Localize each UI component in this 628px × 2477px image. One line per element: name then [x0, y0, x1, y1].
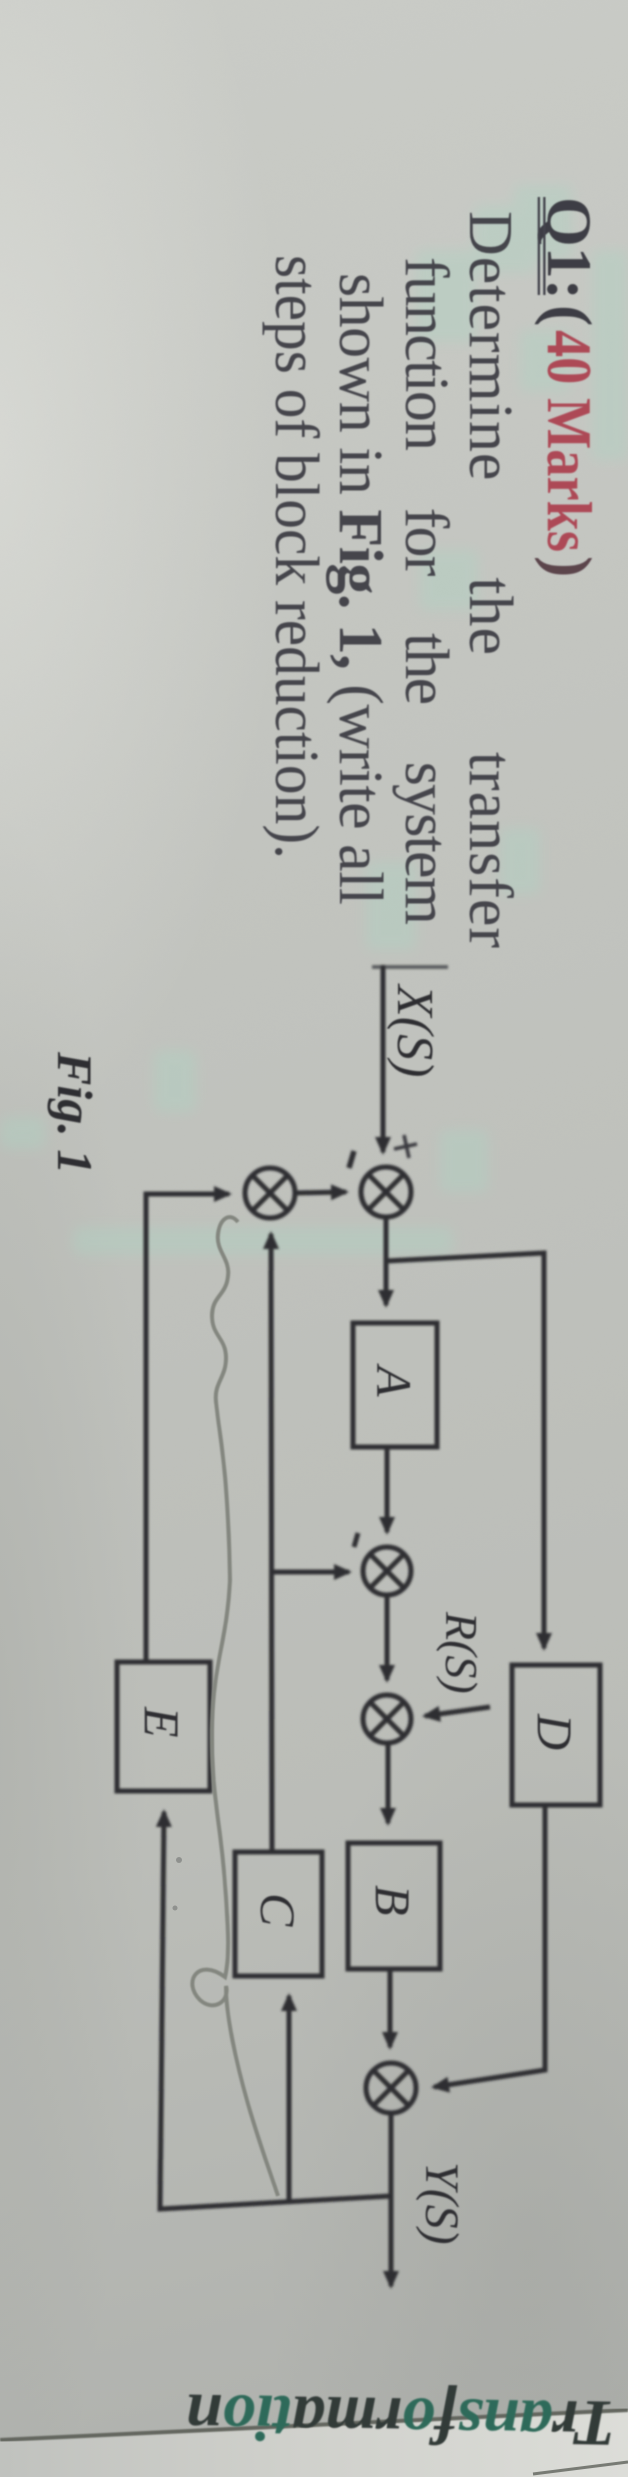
pencil dots — [176, 1857, 182, 1863]
wire B to S5 — [388, 1970, 393, 2047]
wire feedback branch to C — [287, 1996, 292, 2202]
plus sign at S1 — [394, 1135, 417, 1158]
second paper edge line — [533, 2462, 628, 2474]
svg-text:(: ( — [534, 305, 605, 326]
svg-text:C: C — [250, 1893, 306, 1927]
wire S2 to S1 — [295, 1192, 346, 1193]
heading Q1: (40 Marks) — [534, 197, 605, 577]
handwriting Transformation — [185, 2379, 617, 2460]
wire S3 to S4 — [385, 1593, 390, 1680]
svg-text:Transformation: Transformation — [185, 2379, 617, 2460]
mint highlight streaks — [0, 185, 628, 1255]
minus sign at S3 lower input — [354, 1533, 358, 1547]
svg-text:Y(S): Y(S) — [415, 2162, 468, 2245]
block C — [235, 1852, 322, 1976]
svg-text:A: A — [366, 1363, 422, 1397]
block D — [512, 1665, 600, 1805]
pencil squiggle — [192, 1217, 278, 2196]
svg-text:Fig. 1: Fig. 1 — [47, 1051, 103, 1174]
block E — [117, 1662, 210, 1791]
block A — [353, 1323, 437, 1447]
svg-text:R(S): R(S) — [436, 1611, 487, 1694]
svg-text:40 Marks: 40 Marks — [534, 330, 605, 552]
wire S5 output to Y(S) — [389, 2112, 394, 2286]
wire tee up to D branch — [386, 1253, 544, 1648]
summing junction S3 — [363, 1547, 411, 1595]
diagram labels — [47, 983, 583, 2245]
wire A to S3 — [385, 1447, 390, 1532]
wire S1 output to tee — [384, 1216, 389, 1258]
node X(S) start bar — [372, 965, 448, 969]
svg-text:Determine the transfer: Determine the transfer — [456, 211, 524, 948]
svg-text:B: B — [365, 1885, 421, 1916]
svg-text:): ) — [534, 556, 605, 577]
summing junction S5 — [366, 2063, 416, 2113]
svg-text:X(S): X(S) — [386, 983, 443, 1077]
minus sign at S1 lower input — [349, 1151, 354, 1168]
wire C output with branch to S3 — [271, 1234, 272, 1852]
summing junction S4 — [363, 1695, 411, 1743]
wire tee to block A — [384, 1256, 389, 1305]
summing junction S1 — [361, 1167, 411, 1217]
wire E output to S2 — [146, 1194, 229, 1662]
wire branch up to S3 — [272, 1570, 349, 1575]
svg-text:shown in Fig. 1, (write all: shown in Fig. 1, (write all — [326, 273, 394, 905]
summing junction S2 — [245, 1168, 295, 1218]
wire S4 to block B — [386, 1741, 391, 1823]
block B — [348, 1843, 440, 1969]
wire feedback tap down — [160, 1812, 391, 2209]
paper edge line — [0, 2410, 628, 2440]
paper edge region — [0, 2410, 628, 2477]
svg-text:E: E — [134, 1706, 190, 1738]
wire X(S) input arrow — [381, 965, 386, 1152]
wire D output to S5 — [434, 1805, 545, 2087]
svg-text:D: D — [527, 1713, 583, 1750]
wire R(S) input arrow — [425, 1707, 490, 1716]
svg-text:function for the system: function for the system — [392, 257, 460, 925]
svg-text:steps of block reduction).: steps of block reduction). — [262, 255, 330, 859]
